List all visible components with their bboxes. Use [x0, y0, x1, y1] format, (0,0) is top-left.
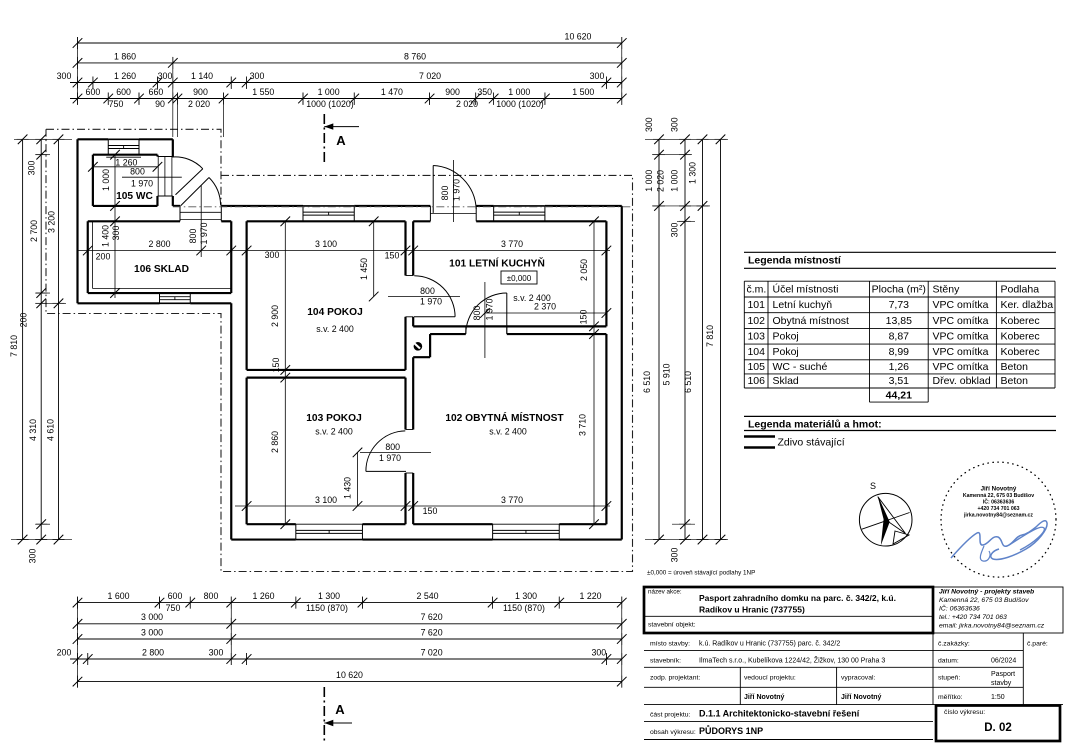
svg-text:7 810: 7 810 — [9, 335, 19, 357]
svg-text:VPC omítka: VPC omítka — [933, 346, 989, 358]
svg-text:200: 200 — [19, 313, 29, 328]
svg-text:6 510: 6 510 — [642, 371, 652, 393]
svg-text:č.zakázky:: č.zakázky: — [938, 641, 970, 648]
svg-text:1 140: 1 140 — [191, 71, 213, 81]
svg-text:2 020: 2 020 — [656, 170, 666, 192]
svg-text:06/2024: 06/2024 — [991, 658, 1016, 665]
dim 1000 WC vertical + 300 + 1400 sklad — [101, 150, 122, 298]
svg-text:4 610: 4 610 — [46, 419, 56, 441]
svg-text:s.v. 2 400: s.v. 2 400 — [315, 427, 353, 437]
svg-text:číslo výkresu:: číslo výkresu: — [944, 709, 985, 716]
compass north arrow — [859, 481, 912, 546]
svg-text:1 300: 1 300 — [515, 591, 537, 601]
building footprint fill — [78, 139, 622, 539]
svg-text:10 620: 10 620 — [565, 31, 592, 41]
svg-text:1 300: 1 300 — [318, 591, 340, 601]
svg-text:1 500: 1 500 — [572, 87, 594, 97]
svg-text:300: 300 — [265, 250, 280, 260]
room 106 SKLAD interior — [88, 221, 232, 293]
svg-text:Letní kuchyň: Letní kuchyň — [773, 299, 833, 311]
svg-text:Beton: Beton — [1001, 361, 1029, 373]
svg-text:7 810: 7 810 — [705, 325, 715, 347]
right dimension chains — [642, 117, 728, 562]
svg-text:8,99: 8,99 — [889, 346, 910, 358]
dim 1430 x=397 — [343, 448, 363, 511]
room labels — [116, 191, 564, 437]
svg-text:stavebník:: stavebník: — [650, 658, 681, 665]
svg-text:2 020: 2 020 — [456, 99, 478, 109]
svg-text:1150 (870): 1150 (870) — [306, 603, 348, 613]
svg-text:1 970: 1 970 — [485, 298, 495, 320]
svg-text:Obytná místnost: Obytná místnost — [773, 315, 850, 327]
svg-text:7 020: 7 020 — [421, 647, 443, 657]
door D2 porch->sklad (leaf + arc) — [180, 178, 221, 222]
svg-text:900: 900 — [193, 87, 208, 97]
chimney flue symbol — [414, 342, 423, 351]
svg-text:1 550: 1 550 — [252, 87, 274, 97]
room 101 LETNI KUCHYN interior — [413, 221, 606, 326]
svg-text:7 620: 7 620 — [421, 612, 443, 622]
svg-text:10 620: 10 620 — [336, 670, 363, 680]
svg-text:2 700: 2 700 — [29, 220, 39, 242]
svg-text:datum:: datum: — [938, 658, 959, 665]
svg-text:1000 (1020): 1000 (1020) — [496, 99, 544, 109]
legend table — [744, 252, 1056, 402]
dim 2370 in 102 — [480, 282, 611, 358]
svg-text:3 710: 3 710 — [578, 414, 588, 436]
svg-text:jirka.novotny84@seznam.cz: jirka.novotny84@seznam.cz — [963, 513, 1033, 519]
svg-text:106: 106 — [747, 375, 765, 387]
svg-text:90: 90 — [155, 99, 165, 109]
svg-text:101: 101 — [747, 299, 765, 311]
svg-text:104 POKOJ: 104 POKOJ — [307, 307, 363, 318]
svg-text:3 200: 3 200 — [47, 211, 57, 233]
svg-text:IČ: 06363636: IČ: 06363636 — [939, 604, 980, 613]
svg-text:VPC omítka: VPC omítka — [933, 299, 989, 311]
dim 1450 x=397 — [359, 217, 379, 302]
svg-text:3 770: 3 770 — [501, 239, 523, 249]
svg-text:800: 800 — [130, 167, 145, 177]
svg-text:obsah výkresu:: obsah výkresu: — [650, 729, 696, 736]
svg-text:Jiří Novotný: Jiří Novotný — [744, 694, 785, 701]
svg-text:750: 750 — [166, 603, 181, 613]
svg-text:2 860: 2 860 — [270, 431, 280, 453]
svg-text:1 970: 1 970 — [131, 179, 153, 189]
svg-text:WC - suché: WC - suché — [773, 361, 828, 373]
svg-text:Jiří Novotný: Jiří Novotný — [981, 486, 1017, 493]
svg-text:1 600: 1 600 — [107, 591, 129, 601]
svg-text:300: 300 — [669, 223, 679, 238]
svg-text:13,85: 13,85 — [886, 315, 912, 327]
svg-text:IlmaTech s.r.o., Kubelíkova 12: IlmaTech s.r.o., Kubelíkova 1224/42, Žiž… — [699, 656, 885, 665]
svg-text:6 510: 6 510 — [683, 371, 693, 393]
svg-text:103 POKOJ: 103 POKOJ — [306, 413, 362, 424]
svg-text:S: S — [870, 481, 876, 491]
svg-text:600: 600 — [116, 87, 131, 97]
svg-text:D.1.1 Architektonicko-stavebn: D.1.1 Architektonicko-stavební řešení — [699, 709, 860, 719]
svg-text:1 970: 1 970 — [379, 453, 401, 463]
svg-text:Jiří Novotný: Jiří Novotný — [841, 694, 882, 701]
legend materials — [744, 416, 1056, 448]
svg-text:č.paré:: č.paré: — [1027, 641, 1048, 648]
svg-text:Koberec: Koberec — [1001, 330, 1040, 342]
svg-text:300: 300 — [644, 117, 654, 132]
svg-text:200: 200 — [57, 647, 72, 657]
svg-text:Podlaha: Podlaha — [1001, 283, 1040, 295]
left dimension chains — [9, 135, 72, 564]
svg-text:2 020: 2 020 — [188, 99, 210, 109]
door D4 dim 800/1970 — [388, 286, 460, 307]
svg-text:200: 200 — [96, 252, 111, 262]
bottom dimension chains — [57, 591, 627, 688]
svg-text:150: 150 — [579, 310, 589, 325]
svg-text:3 000: 3 000 — [141, 612, 163, 622]
svg-text:300: 300 — [57, 71, 72, 81]
svg-text:2 800: 2 800 — [148, 239, 170, 249]
svg-text:7 620: 7 620 — [421, 627, 443, 637]
svg-text:Beton: Beton — [1001, 375, 1029, 387]
svg-text:2 050: 2 050 — [579, 259, 589, 281]
svg-text:7,73: 7,73 — [889, 299, 910, 311]
window 104 top (1000) — [303, 206, 354, 221]
svg-text:44,21: 44,21 — [886, 389, 912, 401]
svg-text:název akce:: název akce: — [648, 589, 682, 596]
roof overhang outline (dash-dot) — [46, 129, 633, 571]
svg-text:email: jirka.novotny84@seznam.: email: jirka.novotny84@seznam.cz — [939, 623, 1045, 630]
door D5 101->102 (leaf + arc) — [466, 293, 507, 334]
svg-text:Plocha (m²): Plocha (m²) — [872, 283, 926, 295]
svg-text:1 470: 1 470 — [381, 87, 403, 97]
door D3 dim 800/1970 — [440, 160, 462, 222]
svg-text:2 370: 2 370 — [534, 302, 556, 312]
svg-text:stupeň:: stupeň: — [938, 675, 960, 682]
svg-text:1 970: 1 970 — [420, 297, 442, 307]
svg-text:7 020: 7 020 — [419, 71, 441, 81]
window 101 top (1000) — [494, 206, 545, 221]
svg-text:vypracoval:: vypracoval: — [841, 675, 875, 682]
svg-text:Kamenná 22, 675 03 Budíšov: Kamenná 22, 675 03 Budíšov — [963, 493, 1034, 499]
svg-text:300: 300 — [209, 647, 224, 657]
svg-text:±0,000: ±0,000 — [507, 274, 532, 283]
svg-text:300: 300 — [158, 71, 173, 81]
door D4 104->101 (leaf + arc) — [406, 276, 456, 317]
svg-text:5 910: 5 910 — [662, 363, 672, 385]
exterior walls — [78, 139, 622, 539]
svg-text:1 260: 1 260 — [114, 71, 136, 81]
svg-text:300: 300 — [27, 161, 37, 176]
svg-text:1 000: 1 000 — [318, 87, 340, 97]
svg-text:300: 300 — [590, 71, 605, 81]
window WC top (600-1200) — [106, 139, 141, 157]
round stamp with signature — [941, 462, 1056, 577]
svg-text:150: 150 — [423, 506, 438, 516]
section line A top — [324, 114, 359, 165]
svg-text:1 000: 1 000 — [508, 87, 530, 97]
window 102 bottom (1300) — [493, 524, 560, 539]
room 104 POKOJ interior — [247, 221, 406, 370]
svg-text:1 260: 1 260 — [252, 591, 274, 601]
svg-text:800: 800 — [472, 306, 482, 321]
door D2 dim 800/1970 — [188, 185, 209, 257]
svg-text:3 770: 3 770 — [501, 495, 523, 505]
svg-text:místo stavby:: místo stavby: — [650, 641, 690, 648]
svg-text:750: 750 — [109, 99, 124, 109]
svg-text:Legenda materiálů a hmot:: Legenda materiálů a hmot: — [748, 419, 882, 431]
svg-text:s.v. 2 400: s.v. 2 400 — [316, 324, 354, 334]
svg-text:350: 350 — [477, 87, 492, 97]
svg-text:č.m.: č.m. — [747, 283, 767, 295]
svg-text:800: 800 — [440, 186, 450, 201]
svg-text:1:50: 1:50 — [991, 694, 1005, 701]
room 103 POKOJ interior — [247, 378, 406, 525]
svg-text:Koberec: Koberec — [1001, 315, 1040, 327]
svg-text:vedoucí projektu:: vedoucí projektu: — [744, 675, 796, 682]
svg-text:Legenda místností: Legenda místností — [748, 255, 842, 267]
svg-text:103: 103 — [747, 330, 765, 342]
svg-text:A: A — [335, 702, 345, 717]
svg-text:101 LETNÍ KUCHYŇ: 101 LETNÍ KUCHYŇ — [449, 257, 545, 270]
svg-text:106 SKLAD: 106 SKLAD — [134, 264, 189, 275]
svg-text:102 OBYTNÁ MÍSTNOST: 102 OBYTNÁ MÍSTNOST — [445, 411, 564, 424]
svg-text:Dřev. obklad: Dřev. obklad — [933, 375, 991, 387]
svg-text:Pokoj: Pokoj — [773, 346, 799, 358]
svg-text:300: 300 — [250, 71, 265, 81]
door D6 dim 800/1970 — [360, 442, 431, 463]
svg-text:Pasport zahradního domku na pa: Pasport zahradního domku na parc. č. 342… — [699, 593, 896, 603]
door D1 dim 800/1970 — [122, 167, 182, 189]
svg-text:3,51: 3,51 — [889, 375, 910, 387]
svg-text:Sklad: Sklad — [773, 375, 799, 387]
svg-text:1 220: 1 220 — [579, 591, 601, 601]
svg-text:1 970: 1 970 — [199, 222, 209, 244]
svg-text:VPC omítka: VPC omítka — [933, 361, 989, 373]
svg-text:IČ: 06363636: IČ: 06363636 — [983, 499, 1015, 506]
door D3 entrance 101 (leaf + arc) — [430, 166, 476, 222]
svg-text:2 900: 2 900 — [270, 305, 280, 327]
svg-text:300: 300 — [669, 117, 679, 132]
svg-text:1 860: 1 860 — [114, 51, 136, 61]
svg-text:150: 150 — [385, 251, 400, 261]
interior dim vertical x=594 (2050/150/3710) — [578, 217, 599, 529]
svg-text:Radíkov u Hranic (737755): Radíkov u Hranic (737755) — [699, 605, 805, 615]
svg-text:Pasport: Pasport — [991, 671, 1015, 678]
interior dim line y=250.5 (2800/3100/3770) — [78, 239, 612, 262]
svg-text:Kamenná 22, 675 03 Budíšov: Kamenná 22, 675 03 Budíšov — [939, 597, 1029, 604]
svg-text:3 100: 3 100 — [315, 495, 337, 505]
svg-text:104: 104 — [747, 346, 765, 358]
svg-text:3 100: 3 100 — [315, 239, 337, 249]
svg-text:800: 800 — [420, 286, 435, 296]
svg-text:VPC omítka: VPC omítka — [933, 315, 989, 327]
svg-text:102: 102 — [747, 315, 765, 327]
svg-text:D. 02: D. 02 — [984, 722, 1012, 734]
svg-text:2 540: 2 540 — [416, 591, 438, 601]
svg-text:1000 (1020): 1000 (1020) — [306, 99, 354, 109]
top dimension chains — [57, 31, 627, 137]
svg-text:300: 300 — [111, 226, 121, 241]
svg-text:±0,000 = úroveň stávající podl: ±0,000 = úroveň stávající podlahy 1NP — [647, 570, 755, 577]
svg-text:800: 800 — [204, 591, 219, 601]
svg-text:1 400: 1 400 — [101, 225, 111, 247]
svg-text:1 300: 1 300 — [688, 162, 698, 184]
svg-text:1 000: 1 000 — [101, 169, 111, 191]
svg-text:1,26: 1,26 — [889, 361, 910, 373]
svg-text:1 450: 1 450 — [359, 258, 369, 280]
attic outline dash-dot through top wall — [173, 206, 633, 208]
svg-text:Ker. dlažba: Ker. dlažba — [1001, 299, 1054, 311]
svg-text:4 310: 4 310 — [28, 419, 38, 441]
svg-text:A: A — [336, 133, 346, 148]
door D5 dim 800/1970 — [472, 298, 495, 320]
svg-text:8 760: 8 760 — [404, 51, 426, 61]
svg-text:600: 600 — [168, 591, 183, 601]
svg-text:část projektu:: část projektu: — [650, 712, 691, 719]
svg-text:300: 300 — [670, 548, 680, 563]
room 105 WC interior — [93, 155, 158, 206]
title block — [644, 587, 1063, 741]
svg-text:k.ú. Radíkov u Hranic (737755): k.ú. Radíkov u Hranic (737755) parc. č. … — [699, 641, 840, 648]
svg-text:stavební objekt:: stavební objekt: — [648, 622, 696, 629]
svg-text:105 WC: 105 WC — [116, 191, 153, 202]
svg-text:Jiří Novotný - projekty staveb: Jiří Novotný - projekty staveb — [939, 589, 1034, 596]
svg-text:600: 600 — [86, 87, 101, 97]
door D6 102->103 (leaf + arc) — [366, 430, 413, 474]
svg-text:150: 150 — [271, 358, 281, 373]
svg-text:1 430: 1 430 — [343, 477, 353, 499]
section line A bottom — [324, 687, 352, 742]
window SKLAD bottom (600) — [160, 293, 191, 303]
svg-text:Stěny: Stěny — [933, 283, 961, 295]
svg-text:Pokoj: Pokoj — [773, 330, 799, 342]
svg-text:s.v. 2 400: s.v. 2 400 — [489, 427, 527, 437]
svg-text:Koberec: Koberec — [1001, 346, 1040, 358]
svg-text:měřítko:: měřítko: — [938, 694, 963, 701]
svg-text:PŮDORYS 1NP: PŮDORYS 1NP — [699, 725, 763, 736]
svg-text:1 970: 1 970 — [452, 179, 462, 201]
svg-text:1 000: 1 000 — [669, 170, 679, 192]
svg-text:VPC omítka: VPC omítka — [933, 330, 989, 342]
door D1 WC (leaf + arc) — [157, 157, 202, 197]
svg-text:105: 105 — [747, 361, 765, 373]
svg-text:tel.: +420 734 701 063: tel.: +420 734 701 063 — [939, 614, 1007, 621]
svg-text:Účel místnosti: Účel místnosti — [773, 282, 839, 295]
svg-text:Zdivo stávající: Zdivo stávající — [778, 437, 845, 449]
svg-text:800: 800 — [385, 442, 400, 452]
svg-text:800: 800 — [188, 229, 198, 244]
dim 1260 WC — [88, 157, 162, 171]
svg-text:2 800: 2 800 — [142, 647, 164, 657]
svg-text:900: 900 — [445, 87, 460, 97]
svg-text:8,87: 8,87 — [889, 330, 910, 342]
svg-text:300: 300 — [591, 647, 606, 657]
interior dim vertical x=285.3 (2900/150/2860) — [270, 217, 290, 529]
svg-text:1150 (870): 1150 (870) — [503, 603, 545, 613]
room 102 OBYTNA MISTNOST interior (with chimney notch) — [413, 334, 606, 524]
svg-text:300: 300 — [28, 549, 38, 564]
svg-text:3 000: 3 000 — [141, 627, 163, 637]
svg-text:+420 734 701 063: +420 734 701 063 — [978, 506, 1020, 512]
svg-text:zodp. projektant:: zodp. projektant: — [650, 675, 700, 682]
window 103 bottom (1300) — [296, 524, 363, 539]
svg-text:stavby: stavby — [991, 680, 1012, 687]
interior dim line y=506 (3100/3770) — [235, 495, 611, 516]
svg-text:660: 660 — [149, 87, 164, 97]
svg-text:1 000: 1 000 — [644, 170, 654, 192]
